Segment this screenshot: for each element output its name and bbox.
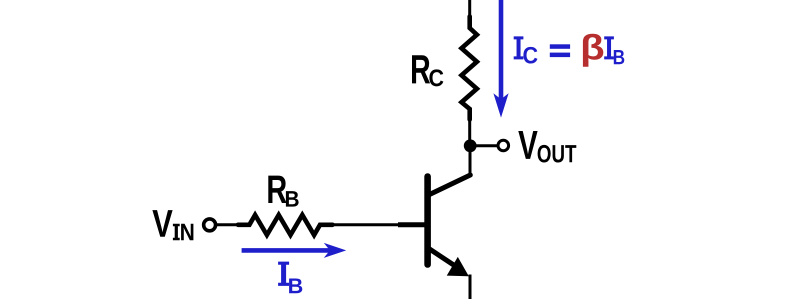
current arrow IB xyxy=(242,243,347,258)
transistor Q1 xyxy=(398,175,470,276)
wire collector supply (top vertical) xyxy=(468,0,471,20)
label RB xyxy=(268,176,298,207)
emitter lead xyxy=(430,249,463,271)
wire collector vertical (node to transistor) xyxy=(469,148,472,176)
resistor RC xyxy=(462,17,477,120)
node junction dot xyxy=(464,139,477,152)
resistor RB xyxy=(238,215,333,235)
IC blue xyxy=(514,36,524,59)
label IC = betaIB equation xyxy=(514,34,625,67)
base lead xyxy=(398,222,426,227)
label VIN xyxy=(152,210,193,240)
collector lead xyxy=(430,175,471,195)
beta (dark red) xyxy=(583,34,603,67)
base bar xyxy=(424,177,431,265)
wire node to VOUT terminal xyxy=(470,144,498,147)
equals sign xyxy=(550,44,570,49)
label IB (blue) xyxy=(278,262,302,294)
terminal VIN circle xyxy=(204,219,216,231)
serif I of IN xyxy=(173,224,180,240)
emitter arrowhead xyxy=(448,258,468,276)
IB blue xyxy=(604,36,614,59)
wire RB to base xyxy=(331,223,399,226)
wire VIN to RB xyxy=(216,223,240,226)
wire emitter vertical (to bottom edge) xyxy=(469,275,472,299)
label RC xyxy=(412,55,443,86)
current arrow IC xyxy=(493,0,508,118)
label VOUT xyxy=(518,131,576,163)
terminal VOUT circle xyxy=(498,140,509,151)
wire RC bottom to node xyxy=(468,118,471,143)
